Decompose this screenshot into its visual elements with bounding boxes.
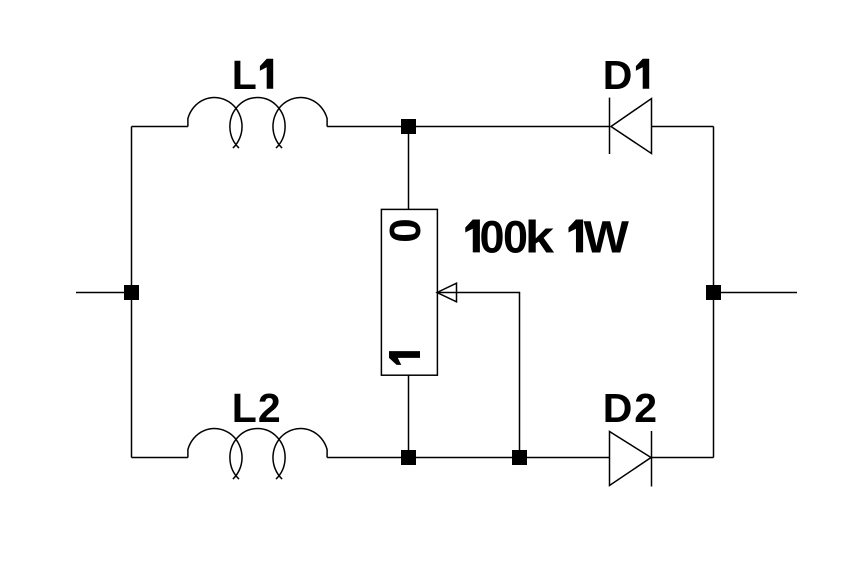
svg-text:L: L: [232, 52, 257, 98]
svg-text:k: k: [525, 211, 555, 262]
svg-text:D: D: [603, 385, 633, 431]
svg-text:0: 0: [381, 218, 430, 242]
svg-text:2: 2: [634, 385, 657, 431]
svg-text:0: 0: [480, 211, 505, 262]
svg-text:W: W: [584, 211, 630, 262]
svg-text:D: D: [603, 52, 633, 98]
svg-text:L: L: [232, 385, 257, 431]
svg-text:2: 2: [258, 385, 281, 431]
